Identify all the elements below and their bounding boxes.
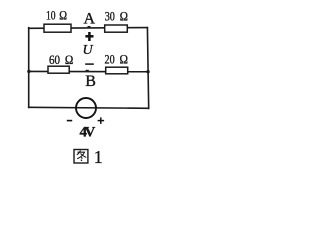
svg-text:30: 30 bbox=[105, 10, 115, 24]
svg-text:U: U bbox=[83, 43, 94, 58]
wire bottom bbox=[28, 107, 149, 108]
svg-text:60: 60 bbox=[49, 53, 60, 67]
wire right bbox=[147, 27, 148, 109]
svg-text:Ω: Ω bbox=[65, 53, 73, 67]
wire left bbox=[28, 27, 30, 108]
battery plus bbox=[98, 117, 105, 124]
resistor R2 30ohm bbox=[105, 25, 128, 32]
junction dot left T bbox=[27, 70, 30, 73]
svg-text:B: B bbox=[85, 73, 96, 90]
svg-text:4V: 4V bbox=[80, 125, 96, 141]
svg-text:Ω: Ω bbox=[120, 53, 129, 67]
svg-text:Ω: Ω bbox=[59, 9, 67, 23]
minus sign above B bbox=[85, 63, 94, 65]
caption figure char tu bbox=[74, 150, 88, 164]
resistor R1 10ohm bbox=[44, 24, 71, 32]
svg-text:10: 10 bbox=[46, 9, 56, 23]
svg-text:20: 20 bbox=[105, 53, 115, 67]
junction dot right T bbox=[146, 70, 149, 73]
resistor R4 20ohm bbox=[106, 67, 128, 74]
node A dot bbox=[88, 26, 91, 28]
battery minus bbox=[67, 120, 72, 122]
battery source circle bbox=[76, 98, 96, 118]
svg-text:Ω: Ω bbox=[120, 10, 128, 24]
wire middle bbox=[28, 70, 149, 72]
plus sign at A bbox=[85, 32, 93, 41]
svg-text:A: A bbox=[84, 10, 96, 27]
node B dot bbox=[86, 70, 89, 72]
svg-text:1: 1 bbox=[94, 147, 103, 167]
wire top bbox=[28, 27, 148, 30]
resistor R3 60ohm bbox=[48, 66, 69, 73]
